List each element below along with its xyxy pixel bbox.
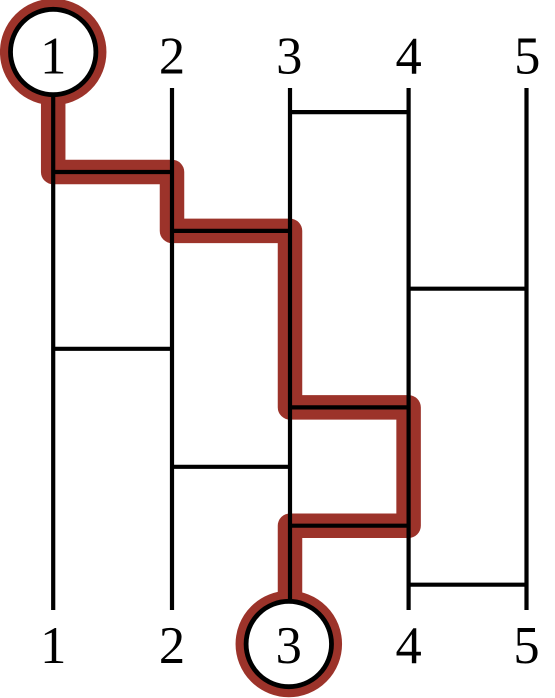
vertical line 1 [51,88,55,610]
start circle outline (top 1) [11,9,96,94]
rung 3-4 at y=525.7 [290,524,409,528]
rung 2-3 at y=466.8 [172,465,290,469]
svg-text:3: 3 [276,617,302,675]
vertical line 3 [288,88,292,610]
highlighted route path (red) from top 1 to bottom 3 [53,52,408,641]
vertical line 5 [524,88,528,610]
rung 1-2 at y=348.8 [53,347,172,351]
rung 2-3 at y=230.9 [172,229,290,233]
rung 3-4 at y=407.4 [290,405,409,409]
svg-text:2: 2 [159,617,185,675]
svg-text:2: 2 [159,28,185,86]
svg-text:5: 5 [513,617,539,675]
svg-text:5: 5 [514,28,540,86]
red ring of start circle [12,11,94,93]
red ring of end circle [248,603,330,685]
rung 4-5 at y=584.7 [409,583,527,587]
svg-text:1: 1 [40,28,66,86]
svg-text:4: 4 [395,617,421,675]
end circle outline (bottom 3) [246,601,331,686]
svg-text:3: 3 [276,28,302,86]
vertical line 2 [170,88,174,610]
rung 1-2 at y=172 [53,170,172,174]
rung 4-5 at y=288.7 [409,287,527,291]
svg-text:4: 4 [395,28,421,86]
svg-text:1: 1 [40,617,66,675]
rung 3-4 at y=112.1 [290,110,409,114]
vertical line 4 [407,88,411,610]
